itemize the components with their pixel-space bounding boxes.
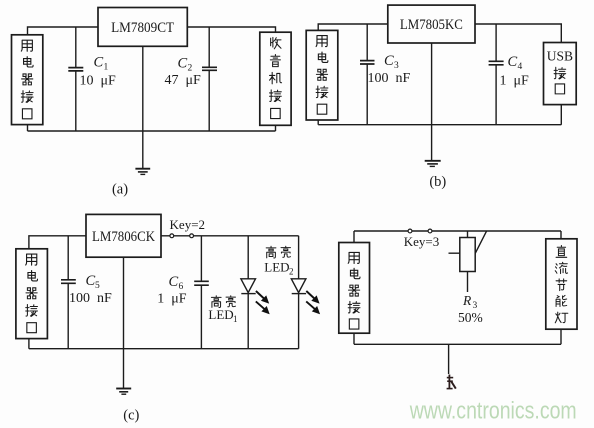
svg-text:Key=2: Key=2 [170, 217, 206, 232]
svg-text:C: C [86, 273, 96, 289]
svg-text:C: C [508, 54, 518, 70]
svg-text:5: 5 [95, 281, 100, 291]
svg-text:www.cntronics.com: www.cntronics.com [409, 397, 577, 424]
svg-text:(c): (c) [123, 408, 139, 424]
svg-text:50%: 50% [458, 310, 483, 325]
svg-text:LED: LED [208, 307, 233, 322]
svg-text:LED: LED [264, 260, 289, 275]
svg-text:100 nF: 100 nF [368, 71, 411, 86]
svg-text:(a): (a) [112, 182, 128, 198]
svg-text:(b): (b) [429, 174, 446, 190]
svg-text:C: C [178, 56, 188, 72]
svg-text:LM7806CK: LM7806CK [92, 229, 155, 245]
svg-text:C: C [384, 53, 394, 69]
svg-text:1 μF: 1 μF [500, 74, 530, 89]
svg-text:2: 2 [289, 267, 294, 277]
svg-text:47 μF: 47 μF [165, 73, 202, 88]
svg-text:R: R [462, 293, 472, 308]
svg-text:Key=3: Key=3 [404, 234, 440, 249]
svg-text:USB: USB [547, 49, 573, 64]
svg-text:4: 4 [518, 62, 523, 72]
svg-text:LM7809CT: LM7809CT [111, 20, 174, 36]
svg-text:2: 2 [188, 64, 193, 74]
svg-text:C: C [169, 274, 179, 290]
svg-text:3: 3 [394, 61, 399, 71]
svg-text:10 μF: 10 μF [80, 74, 117, 89]
svg-text:C: C [94, 55, 104, 71]
svg-text:1 μF: 1 μF [157, 291, 187, 306]
svg-text:LM7805KC: LM7805KC [400, 17, 463, 33]
svg-text:1: 1 [233, 314, 238, 324]
svg-text:100 nF: 100 nF [69, 291, 112, 306]
svg-text:1: 1 [104, 63, 109, 73]
svg-text:6: 6 [179, 282, 184, 292]
